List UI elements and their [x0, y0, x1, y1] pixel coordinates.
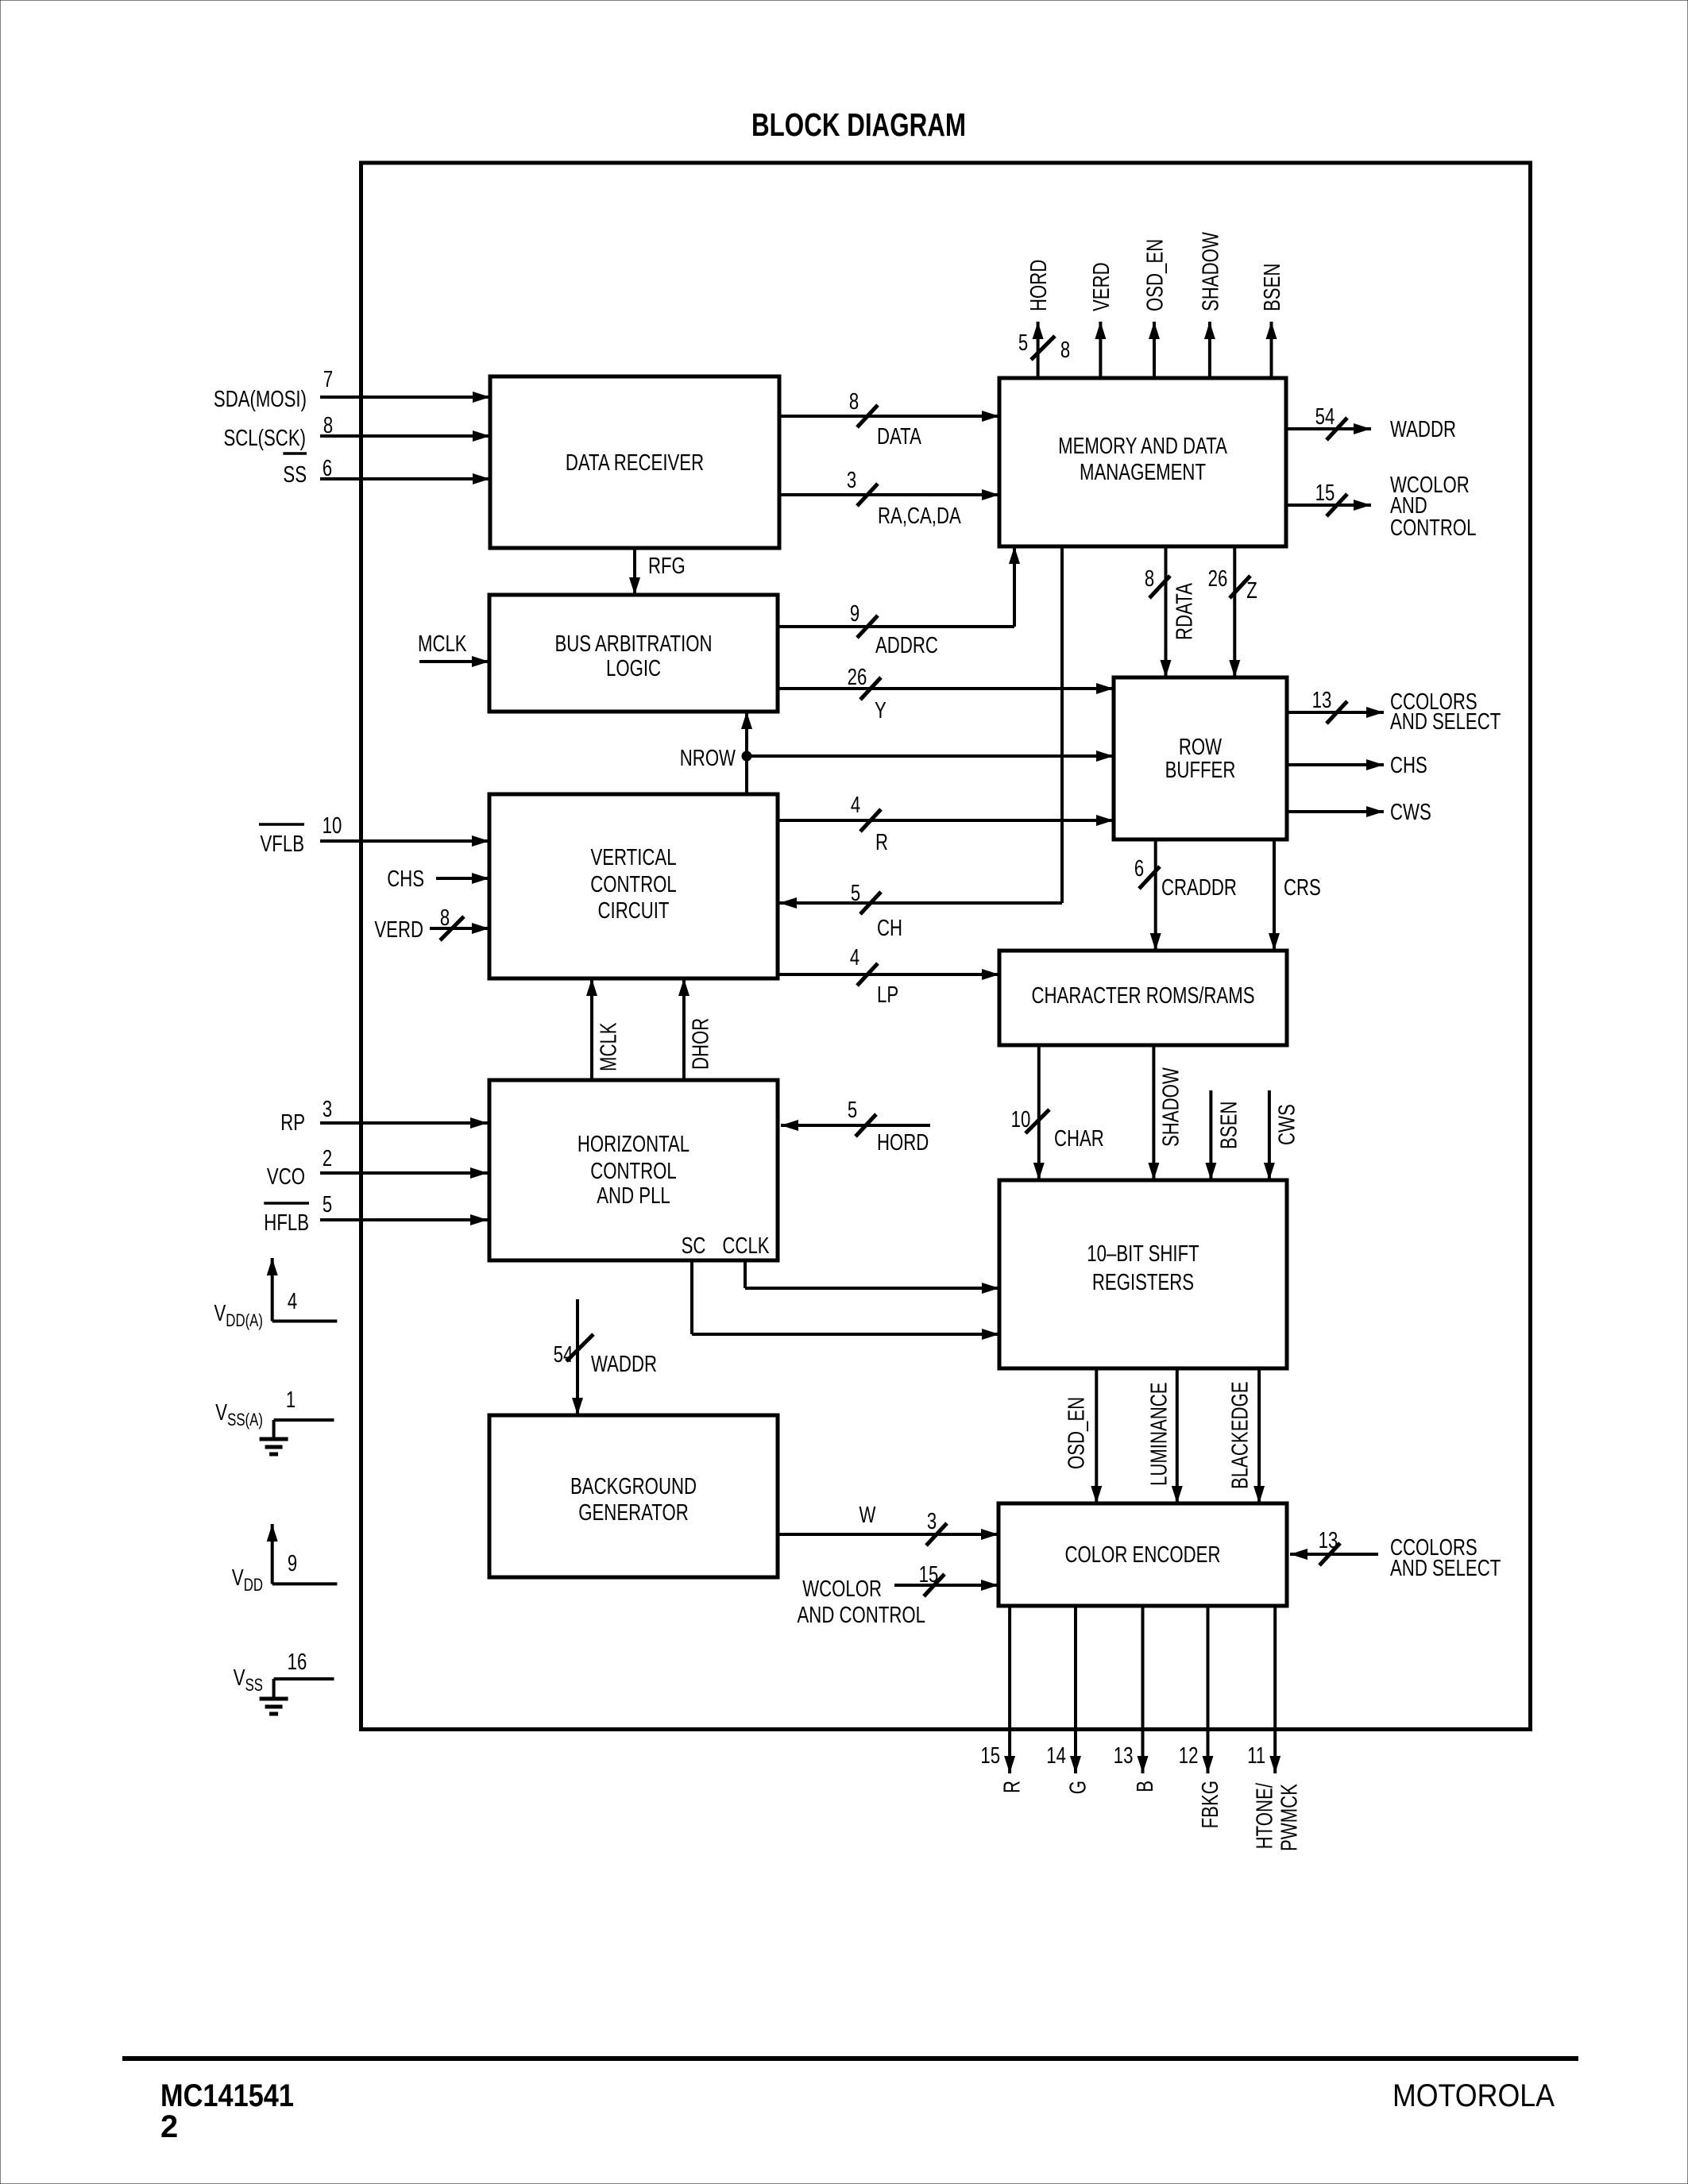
svg-text:MC141541: MC141541 [160, 2078, 294, 2113]
svg-text:LP: LP [877, 982, 898, 1008]
svg-text:8: 8 [440, 905, 450, 931]
svg-text:ADDRC: ADDRC [875, 633, 938, 658]
svg-text:7: 7 [323, 367, 333, 392]
svg-text:WCOLOR: WCOLOR [802, 1576, 882, 1602]
svg-text:BUFFER: BUFFER [1165, 758, 1236, 783]
svg-text:5: 5 [851, 881, 860, 906]
svg-text:CCLK: CCLK [722, 1233, 770, 1259]
svg-text:G: G [1065, 1781, 1091, 1794]
svg-text:MCLK: MCLK [596, 1022, 621, 1071]
svg-text:HFLB: HFLB [264, 1210, 309, 1236]
svg-text:DD: DD [244, 1575, 263, 1595]
svg-text:R: R [875, 830, 888, 855]
svg-text:13: 13 [1319, 1528, 1338, 1553]
svg-text:13: 13 [1114, 1743, 1134, 1769]
svg-text:26: 26 [1208, 566, 1228, 592]
svg-text:CWS: CWS [1274, 1104, 1300, 1145]
svg-text:BLACKEDGE: BLACKEDGE [1227, 1381, 1253, 1489]
svg-text:6: 6 [323, 456, 332, 481]
svg-text:B: B [1133, 1781, 1158, 1792]
svg-text:RA,CA,DA: RA,CA,DA [878, 504, 961, 529]
svg-text:COLOR ENCODER: COLOR ENCODER [1065, 1542, 1221, 1568]
svg-text:8: 8 [849, 389, 859, 415]
svg-text:8: 8 [1060, 338, 1070, 363]
svg-text:RP: RP [280, 1110, 305, 1136]
svg-text:10–BIT SHIFT: 10–BIT SHIFT [1087, 1241, 1199, 1267]
svg-text:11: 11 [1247, 1743, 1265, 1769]
svg-text:CRADDR: CRADDR [1161, 875, 1237, 901]
svg-text:26: 26 [848, 665, 867, 690]
svg-text:4: 4 [851, 793, 860, 818]
svg-text:OSD_EN: OSD_EN [1142, 239, 1168, 311]
svg-text:Y: Y [875, 698, 886, 723]
svg-text:Z: Z [1246, 578, 1257, 604]
svg-text:SCL(SCK): SCL(SCK) [224, 426, 307, 451]
svg-text:15: 15 [1315, 480, 1335, 506]
svg-text:SHADOW: SHADOW [1158, 1067, 1184, 1147]
svg-text:5: 5 [848, 1098, 857, 1123]
svg-text:V: V [232, 1565, 244, 1591]
svg-text:8: 8 [323, 413, 333, 438]
svg-text:2: 2 [160, 2109, 178, 2144]
svg-text:HTONE/: HTONE/ [1252, 1782, 1277, 1849]
svg-text:HORD: HORD [877, 1130, 929, 1156]
svg-text:BACKGROUND: BACKGROUND [570, 1474, 697, 1499]
svg-text:DD(A): DD(A) [226, 1310, 263, 1330]
svg-text:VERD: VERD [374, 917, 423, 943]
svg-text:BLOCK DIAGRAM: BLOCK DIAGRAM [751, 106, 966, 143]
svg-text:SHADOW: SHADOW [1198, 232, 1223, 311]
svg-text:BSEN: BSEN [1260, 264, 1285, 311]
svg-text:AND SELECT: AND SELECT [1390, 709, 1501, 735]
svg-text:GENERATOR: GENERATOR [578, 1500, 689, 1526]
svg-text:6: 6 [1134, 856, 1144, 882]
svg-text:5: 5 [1018, 330, 1028, 356]
svg-text:4: 4 [288, 1289, 297, 1314]
svg-text:DATA: DATA [877, 424, 921, 450]
svg-text:V: V [215, 1400, 227, 1426]
svg-text:DHOR: DHOR [688, 1018, 713, 1070]
svg-text:LOGIC: LOGIC [606, 656, 661, 681]
svg-text:ROW: ROW [1179, 735, 1223, 760]
svg-text:V: V [234, 1665, 245, 1691]
svg-text:VERD: VERD [1089, 262, 1114, 311]
svg-text:5: 5 [323, 1192, 332, 1217]
svg-text:4: 4 [850, 945, 859, 970]
svg-text:1: 1 [286, 1387, 295, 1413]
svg-text:3: 3 [847, 468, 856, 493]
svg-text:MEMORY AND DATA: MEMORY AND DATA [1058, 434, 1227, 459]
svg-text:CHARACTER ROMS/RAMS: CHARACTER ROMS/RAMS [1032, 983, 1255, 1009]
svg-text:15: 15 [980, 1743, 1000, 1769]
svg-text:SS(A): SS(A) [227, 1410, 263, 1430]
svg-text:LUMINANCE: LUMINANCE [1146, 1382, 1172, 1486]
svg-text:CONTROL: CONTROL [1390, 515, 1477, 541]
svg-text:MANAGEMENT: MANAGEMENT [1080, 460, 1206, 485]
svg-text:2: 2 [323, 1146, 332, 1171]
svg-text:3: 3 [323, 1097, 332, 1122]
svg-text:54: 54 [1315, 404, 1335, 430]
svg-text:9: 9 [850, 601, 859, 627]
svg-text:BUS ARBITRATION: BUS ARBITRATION [554, 631, 712, 657]
svg-text:SDA(MOSI): SDA(MOSI) [214, 387, 307, 412]
svg-text:NROW: NROW [680, 746, 736, 771]
svg-text:3: 3 [927, 1509, 937, 1534]
svg-text:12: 12 [1179, 1743, 1199, 1769]
svg-text:15: 15 [919, 1562, 939, 1588]
svg-text:CONTROL: CONTROL [590, 872, 677, 897]
svg-text:8: 8 [1145, 566, 1154, 592]
svg-text:CHS: CHS [387, 866, 424, 892]
svg-text:MCLK: MCLK [418, 631, 467, 657]
svg-text:WADDR: WADDR [591, 1352, 657, 1377]
svg-text:10: 10 [1011, 1107, 1031, 1133]
svg-text:54: 54 [554, 1342, 574, 1368]
svg-text:9: 9 [288, 1551, 297, 1576]
svg-text:HORIZONTAL: HORIZONTAL [577, 1132, 689, 1157]
svg-text:CH: CH [877, 916, 902, 941]
svg-text:CWS: CWS [1390, 800, 1431, 825]
svg-text:REGISTERS: REGISTERS [1092, 1270, 1194, 1295]
svg-text:14: 14 [1046, 1743, 1066, 1769]
svg-text:CIRCUIT: CIRCUIT [598, 898, 670, 924]
svg-text:MOTOROLA: MOTOROLA [1393, 2078, 1555, 2113]
svg-text:CHAR: CHAR [1054, 1126, 1104, 1152]
svg-text:CHS: CHS [1390, 753, 1427, 778]
svg-text:16: 16 [288, 1650, 307, 1675]
svg-text:V: V [214, 1301, 226, 1326]
svg-text:CRS: CRS [1284, 875, 1321, 901]
svg-text:RFG: RFG [648, 554, 686, 579]
svg-text:PWMCK: PWMCK [1277, 1784, 1302, 1851]
svg-text:OSD_EN: OSD_EN [1064, 1397, 1089, 1469]
svg-text:AND CONTROL: AND CONTROL [798, 1603, 926, 1628]
svg-text:RDATA: RDATA [1172, 583, 1197, 640]
svg-text:SS: SS [245, 1675, 263, 1695]
svg-text:13: 13 [1312, 688, 1332, 713]
svg-text:AND SELECT: AND SELECT [1390, 1556, 1501, 1581]
svg-text:WADDR: WADDR [1390, 417, 1456, 442]
svg-text:VCO: VCO [267, 1164, 305, 1190]
svg-text:W: W [859, 1503, 876, 1528]
svg-text:SC: SC [682, 1233, 706, 1259]
svg-text:AND PLL: AND PLL [597, 1183, 670, 1209]
svg-text:SS: SS [283, 462, 307, 488]
svg-text:10: 10 [323, 813, 342, 839]
svg-text:FBKG: FBKG [1198, 1781, 1223, 1828]
svg-text:HORD: HORD [1026, 260, 1052, 311]
svg-text:VERTICAL: VERTICAL [590, 845, 676, 870]
svg-text:DATA RECEIVER: DATA RECEIVER [566, 450, 704, 476]
svg-text:R: R [1000, 1781, 1026, 1793]
svg-text:CONTROL: CONTROL [590, 1159, 677, 1184]
svg-text:VFLB: VFLB [261, 832, 305, 857]
svg-text:BSEN: BSEN [1216, 1102, 1242, 1149]
